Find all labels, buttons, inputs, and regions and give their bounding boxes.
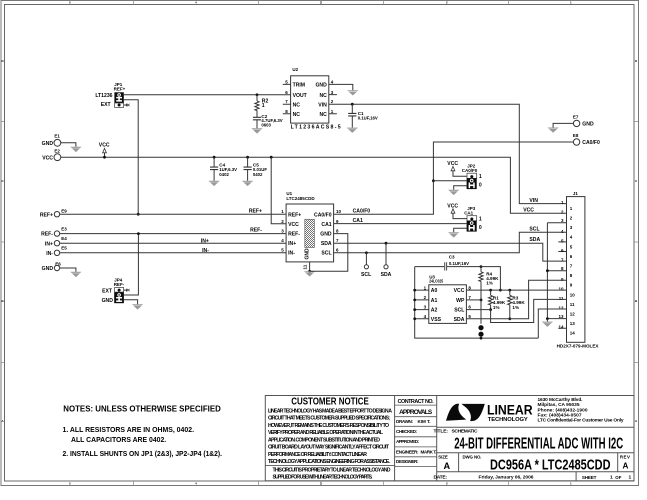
svg-text:HOWEVER, IT REMAINS THE CUSTOM: HOWEVER, IT REMAINS THE CUSTOMER'S RESPO… — [268, 423, 389, 429]
wire SDA net U1 pin7 to J1 pin7 — [334, 243, 567, 261]
junction JP2 branch — [432, 179, 435, 182]
svg-text:C3: C3 — [449, 255, 455, 260]
svg-text:CIRUIT BOARD LAYOUT MAY SIGNIF: CIRUIT BOARD LAYOUT MAY SIGNIFICANTLY AF… — [268, 445, 390, 451]
svg-text:7: 7 — [561, 258, 564, 263]
svg-text:E5: E5 — [61, 246, 67, 251]
ground at E1 — [70, 147, 81, 152]
svg-text:E3: E3 — [61, 227, 67, 232]
svg-text:1: 1 — [281, 209, 284, 214]
junction C3/R4 — [480, 265, 483, 268]
svg-text:14: 14 — [570, 331, 576, 336]
svg-text:REF-: REF- — [114, 282, 125, 287]
jumper JP3 — [464, 206, 482, 232]
jumper JP4 — [102, 278, 130, 304]
svg-text:GND: GND — [315, 83, 327, 89]
resistor R2 — [255, 95, 269, 118]
wire JP4 gnd pin — [124, 300, 138, 305]
wire CA0/F0 net U1 pin10 to E8 — [334, 142, 574, 214]
svg-text:1%: 1% — [486, 281, 493, 286]
wire U1 pin8 GND to pad ground — [310, 234, 348, 272]
svg-text:11: 11 — [303, 264, 309, 269]
junction JP4/REF- — [137, 232, 140, 235]
svg-text:DRAWN:: DRAWN: — [396, 419, 413, 424]
svg-text:CONTRACT NO.: CONTRACT NO. — [398, 399, 435, 405]
svg-text:PERFORMANCE OR RELIABILITY. C: PERFORMANCE OR RELIABILITY. CONTACT LINE… — [268, 452, 367, 458]
svg-text:REF+: REF+ — [40, 212, 53, 218]
svg-text:GND: GND — [42, 266, 54, 272]
svg-text:VCC: VCC — [288, 222, 299, 228]
capacitor C5 — [244, 156, 268, 181]
J1 pin numbers — [558, 200, 575, 336]
svg-text:0.1UF,16V: 0.1UF,16V — [449, 261, 469, 266]
svg-text:1: 1 — [629, 475, 632, 481]
wire VCC branch to U1 pin2 — [271, 157, 286, 224]
svg-text:6: 6 — [285, 90, 288, 95]
wire WP stub — [466, 299, 481, 301]
svg-text:2: 2 — [281, 219, 284, 224]
svg-text:NC: NC — [293, 102, 301, 108]
svg-text:LTC Confidential-For Customer: LTC Confidential-For Customer Use Only — [538, 418, 624, 424]
VCC symbol at rail — [99, 142, 110, 158]
svg-text:E2: E2 — [54, 148, 60, 153]
svg-text:TRIM: TRIM — [293, 83, 305, 89]
svg-text:5: 5 — [281, 248, 284, 253]
ground under C2 — [251, 128, 262, 133]
svg-text:REF-: REF- — [288, 232, 300, 238]
svg-text:NC: NC — [319, 93, 327, 99]
ground under C1 — [347, 128, 358, 133]
svg-text:REF-: REF- — [250, 228, 262, 234]
svg-text:GND: GND — [304, 248, 310, 260]
svg-text:EXT: EXT — [102, 289, 113, 295]
svg-text:2: 2 — [561, 210, 564, 215]
svg-text:REF+: REF+ — [288, 212, 301, 218]
op-amp U2 LT1236ACS8-5 reference — [283, 67, 341, 130]
svg-text:CA0/F0: CA0/F0 — [462, 168, 478, 173]
TITLE BLOCK — [265, 396, 634, 481]
svg-text:LT1236: LT1236 — [95, 93, 112, 99]
ground under U1 — [304, 271, 315, 276]
zone tick marks sides — [1, 122, 639, 363]
svg-text:8: 8 — [285, 109, 288, 114]
svg-text:6: 6 — [561, 248, 564, 253]
svg-text:REV: REV — [620, 454, 630, 459]
svg-text:SCL: SCL — [529, 227, 539, 233]
svg-text:VCC: VCC — [447, 161, 458, 167]
terminal E8 CA0/F0 — [573, 133, 600, 146]
wire U3 address/VSS ground bus — [415, 267, 539, 339]
wire LT1236 VOUT net — [124, 94, 291, 96]
svg-text:6: 6 — [468, 305, 471, 310]
svg-text:1: 1 — [561, 200, 564, 205]
svg-text:REF+: REF+ — [114, 86, 126, 91]
svg-text:13: 13 — [558, 314, 564, 319]
ground at E7 — [548, 128, 559, 133]
svg-text:4: 4 — [424, 314, 427, 319]
wire VCC_EE U3 pin8 to J1 pin10 — [466, 289, 566, 291]
wire C3 to VCC_EE — [481, 267, 500, 291]
terminal E5 IN- — [46, 246, 67, 257]
junction R2 top — [256, 93, 259, 96]
svg-text:IN+: IN+ — [288, 241, 296, 247]
svg-text:ALL CAPACITORS ARE 0402.: ALL CAPACITORS ARE 0402. — [71, 435, 166, 444]
wire JP1 pin2 to REF+ line — [124, 100, 138, 214]
svg-text:REF+: REF+ — [249, 208, 262, 214]
svg-text:GND: GND — [582, 122, 594, 128]
svg-text:IN-: IN- — [46, 251, 53, 257]
VCC symbol at JP3 — [447, 204, 467, 219]
svg-text:1%: 1% — [512, 305, 519, 310]
svg-text:SCL: SCL — [361, 272, 371, 278]
svg-text:5: 5 — [285, 79, 288, 84]
svg-text:2: 2 — [424, 295, 427, 300]
svg-text:Phone: (408)432-1900: Phone: (408)432-1900 — [538, 407, 588, 413]
svg-text:4: 4 — [281, 238, 284, 243]
svg-text:LTC2485CDD: LTC2485CDD — [286, 196, 315, 201]
svg-text:CA1: CA1 — [321, 222, 331, 228]
svg-text:0.1UF,16V: 0.1UF,16V — [358, 115, 378, 120]
svg-text:CA0/F0: CA0/F0 — [582, 140, 600, 146]
wire J1 pin12 to ground bus — [538, 309, 566, 338]
svg-text:LINEAR: LINEAR — [487, 402, 533, 417]
svg-text:1: 1 — [479, 174, 482, 180]
svg-text:1: 1 — [424, 285, 427, 290]
svg-text:APPROVALS: APPROVALS — [399, 409, 433, 416]
svg-text:10: 10 — [558, 287, 564, 292]
svg-text:A: A — [444, 461, 451, 471]
terminal E9 REF+ — [40, 208, 67, 218]
svg-text:10: 10 — [570, 292, 576, 297]
svg-text:IN+: IN+ — [201, 238, 209, 244]
junction C1 — [351, 103, 354, 106]
svg-text:E7: E7 — [573, 115, 579, 120]
svg-text:EXT: EXT — [101, 102, 112, 108]
svg-text:CUSTOMER NOTICE: CUSTOMER NOTICE — [291, 397, 369, 408]
VCC symbol at JP2 — [447, 161, 467, 176]
svg-text:5: 5 — [561, 238, 564, 243]
svg-text:REF-: REF- — [41, 232, 53, 238]
svg-text:GND: GND — [320, 232, 332, 238]
svg-text:VSS: VSS — [431, 317, 442, 323]
wire SCL_EE to J1 pin11 — [491, 299, 567, 322]
svg-text:A2: A2 — [431, 308, 438, 314]
svg-text:J1: J1 — [573, 191, 579, 196]
capacitor C3 — [415, 255, 481, 271]
resistor R1 — [489, 289, 506, 310]
ground at JP4 — [132, 304, 143, 309]
svg-text:E9: E9 — [61, 208, 67, 213]
terminal E3 REF- — [41, 227, 67, 238]
svg-text:C: C — [635, 179, 638, 183]
svg-text:9: 9 — [336, 219, 339, 224]
svg-text:LINEAR TECHNOLOGY HAS MADE A B: LINEAR TECHNOLOGY HAS MADE A BEST EFFORT… — [268, 408, 392, 414]
svg-text:IN-: IN- — [288, 251, 295, 257]
svg-text:0402: 0402 — [219, 172, 229, 177]
svg-text:7: 7 — [336, 238, 339, 243]
svg-text:11: 11 — [570, 302, 575, 307]
junction SCL testpoint — [365, 251, 368, 254]
svg-text:1: 1 — [262, 103, 265, 109]
svg-text:A1: A1 — [431, 298, 438, 304]
svg-text:GND: GND — [102, 298, 114, 304]
svg-text:3: 3 — [424, 305, 427, 310]
wire VCC main rail — [61, 157, 567, 213]
svg-text:A: A — [623, 461, 629, 470]
wire REF- net — [60, 233, 286, 235]
svg-text:1: 1 — [479, 217, 482, 223]
svg-text:12: 12 — [558, 306, 564, 311]
svg-text:APPROVED:: APPROVED: — [396, 439, 419, 444]
svg-text:E8: E8 — [573, 133, 579, 138]
svg-text:DC956A * LTC2485CDD: DC956A * LTC2485CDD — [490, 457, 611, 473]
svg-text:VCC: VCC — [454, 288, 465, 294]
wire SCL net U1 pin6 to J1 pin4 — [334, 232, 567, 253]
svg-text:SUPPLIED FOR USE WITH LINEAR T: SUPPLIED FOR USE WITH LINEAR TECHNOLOGY … — [273, 475, 374, 481]
svg-text:Friday, January 06, 2006: Friday, January 06, 2006 — [479, 474, 534, 480]
svg-text:VCC: VCC — [523, 208, 534, 214]
zone tick marks bottom — [134, 481, 509, 486]
svg-text:0603: 0603 — [261, 122, 271, 127]
wire JP2 gnd — [454, 186, 467, 190]
svg-text:KIM T.: KIM T. — [418, 419, 431, 424]
terminal E7 GND — [573, 115, 594, 128]
svg-text:APPLICATION. COMPONENT SUBSTI: APPLICATION. COMPONENT SUBSTITUTION AND … — [268, 437, 380, 443]
wire SCL_EE U3 pin6 — [466, 309, 490, 311]
svg-text:GND: GND — [42, 141, 54, 147]
svg-text:1. ALL RESISTORS ARE IN OHMS,: 1. ALL RESISTORS ARE IN OHMS, 0402. — [63, 425, 195, 434]
junction SDA testpoint — [385, 242, 388, 245]
svg-text:HD2X7-079-MOLEX: HD2X7-079-MOLEX — [557, 344, 600, 349]
svg-text:SHEET: SHEET — [582, 475, 597, 480]
capacitor C1 — [348, 104, 378, 127]
jumper JP1 — [95, 82, 129, 108]
wire VIN net U2 pin2 to J1 pin1 — [329, 104, 567, 203]
svg-text:SCHEMATIC: SCHEMATIC — [452, 428, 478, 434]
svg-text:8: 8 — [336, 228, 339, 233]
terminal SCL — [361, 253, 371, 278]
terminal SDA — [381, 243, 392, 278]
svg-text:8: 8 — [468, 285, 471, 290]
svg-text:10: 10 — [336, 209, 342, 214]
svg-text:CA0/F0: CA0/F0 — [353, 208, 371, 214]
svg-text:D: D — [635, 59, 638, 63]
eeprom U3 24LC025 — [424, 275, 472, 324]
junction R1/SCL_EE — [489, 308, 492, 311]
junction R4/WP — [480, 299, 483, 302]
connector J1 HD2X7-079-MOLEX — [557, 191, 600, 349]
svg-text:6: 6 — [336, 248, 339, 253]
ground at E6 — [70, 272, 81, 277]
svg-text:NOTES: UNLESS OTHERWISE SPECI: NOTES: UNLESS OTHERWISE SPECIFIED — [63, 403, 221, 413]
ground at J1 pin13 — [542, 322, 553, 327]
Linear Technology logo — [446, 402, 533, 423]
junction R3/SDA_EE — [508, 317, 511, 320]
svg-text:LT1236ACS8-5: LT1236ACS8-5 — [291, 125, 341, 131]
wire IN+ net — [60, 242, 286, 244]
wire REF+ net — [60, 213, 286, 215]
svg-text:1%: 1% — [493, 305, 500, 310]
svg-text:1: 1 — [610, 475, 613, 481]
svg-text:CA0/F0: CA0/F0 — [314, 212, 332, 218]
svg-text:VCC: VCC — [447, 204, 458, 210]
svg-text:13: 13 — [570, 321, 576, 326]
NOTES text block — [63, 403, 223, 458]
svg-text:IN+: IN+ — [45, 241, 53, 247]
svg-text:3: 3 — [561, 218, 564, 223]
svg-text:TECHNOLOGY APPLICATIONS ENGINE: TECHNOLOGY APPLICATIONS ENGINEERING FOR … — [268, 459, 391, 465]
wire E1 to ground — [61, 143, 76, 147]
svg-text:SCL: SCL — [321, 251, 331, 257]
svg-text:CIRCUIT THAT MEETS CUSTOMER-SU: CIRCUIT THAT MEETS CUSTOMER-SUPPLIED SPE… — [268, 416, 390, 422]
svg-text:WP: WP — [456, 298, 465, 304]
svg-text:MARK T.: MARK T. — [421, 449, 437, 454]
capacitor C4 — [210, 156, 237, 181]
svg-text:DESIGNER:: DESIGNER: — [396, 459, 419, 464]
svg-text:SDA: SDA — [381, 272, 392, 278]
svg-text:24LC025: 24LC025 — [429, 279, 443, 284]
svg-text:24-BIT DIFFERENTIAL ADC WITH I: 24-BIT DIFFERENTIAL ADC WITH I2C — [454, 435, 623, 452]
junction JP1/REF+ — [137, 213, 140, 216]
svg-text:NC: NC — [319, 112, 327, 118]
svg-text:ENGINEER:: ENGINEER: — [396, 449, 419, 454]
svg-text:SDA: SDA — [454, 317, 465, 323]
svg-text:SDA: SDA — [529, 237, 540, 243]
svg-text:Fax: (408)434-0507: Fax: (408)434-0507 — [538, 413, 582, 419]
terminal E4 IN+ — [45, 236, 67, 247]
wire CA0/F0 branch to JP2 — [433, 180, 466, 182]
wire E7 to ground — [553, 123, 573, 127]
wire U2 pin4 to ground — [329, 84, 353, 90]
option pads below U3 — [478, 325, 483, 339]
svg-text:3: 3 — [281, 228, 284, 233]
svg-text:VCC: VCC — [99, 142, 110, 148]
svg-text:4: 4 — [331, 79, 334, 84]
svg-text:TECHNOLOGY: TECHNOLOGY — [488, 417, 528, 423]
svg-text:12: 12 — [570, 312, 576, 317]
terminal E1 GND — [42, 134, 61, 147]
svg-text:7: 7 — [285, 99, 288, 104]
svg-text:0: 0 — [479, 183, 482, 189]
svg-text:SIZE: SIZE — [438, 454, 448, 459]
svg-text:B: B — [635, 299, 638, 303]
J1 ground bus pins 3,8,13 — [547, 223, 566, 319]
ground at U2 pin4 — [347, 90, 358, 95]
svg-text:7: 7 — [468, 295, 471, 300]
svg-text:SCL: SCL — [454, 308, 464, 314]
svg-text:DATE:: DATE: — [434, 474, 448, 480]
wire SDA_EE U3 pin5 to J1 pin9 — [466, 280, 566, 319]
ADC U1 LTC2485CDD — [281, 191, 341, 262]
svg-text:THIS CIRCUIT IS PROPRIETARY TO: THIS CIRCUIT IS PROPRIETARY TO LINEAR TE… — [273, 468, 391, 474]
jumper JP2 — [462, 163, 482, 189]
svg-text:E6: E6 — [55, 261, 61, 266]
ground at JP2 — [448, 190, 459, 195]
svg-text:2. INSTALL SHUNTS ON JP1 (2&3): 2. INSTALL SHUNTS ON JP1 (2&3), JP2-JP4 … — [63, 449, 223, 458]
svg-text:VCC: VCC — [42, 155, 53, 161]
junction C3 branch at VCC_EE — [499, 289, 502, 292]
wire IN- net — [60, 252, 286, 254]
wire JP3 gnd — [454, 228, 467, 232]
svg-text:OF: OF — [615, 475, 621, 480]
svg-text:TITLE:: TITLE: — [434, 428, 449, 434]
svg-text:E4: E4 — [61, 236, 67, 241]
terminal E6 GND — [42, 261, 62, 272]
U1 exposed pad — [303, 219, 315, 269]
svg-text:3: 3 — [331, 90, 334, 95]
svg-text:2: 2 — [331, 99, 334, 104]
svg-text:DWG NO.: DWG NO. — [463, 454, 482, 459]
svg-text:A: A — [635, 419, 638, 423]
svg-text:NC: NC — [293, 112, 301, 118]
svg-text:5: 5 — [468, 314, 471, 319]
svg-text:A0: A0 — [431, 288, 438, 294]
svg-text:4: 4 — [561, 229, 564, 234]
svg-text:1: 1 — [331, 109, 334, 114]
svg-text:VIN: VIN — [318, 102, 327, 108]
ground under C5 — [242, 181, 253, 186]
svg-text:CHECKED:: CHECKED: — [396, 429, 417, 434]
resistor R3 — [508, 289, 526, 319]
junction U1 ground node — [308, 270, 311, 273]
svg-text:VOUT: VOUT — [293, 93, 308, 99]
svg-text:E1: E1 — [54, 134, 60, 139]
wire E6 to ground — [60, 268, 76, 272]
svg-text:14: 14 — [558, 325, 564, 330]
svg-text:0402: 0402 — [253, 172, 263, 177]
svg-text:CA1: CA1 — [353, 218, 363, 224]
wire U1 pad pin11 to ground — [309, 262, 311, 271]
wire CA1 net U1 pin9 to JP3 — [334, 223, 467, 225]
svg-text:9: 9 — [561, 277, 564, 282]
wire JP4 middle pin to REF- line — [124, 234, 138, 295]
ground under C4 — [209, 181, 220, 186]
svg-text:1630 McCarthy Blvd.: 1630 McCarthy Blvd. — [538, 397, 583, 403]
junction VCC to U1 — [270, 156, 273, 159]
svg-text:VIN: VIN — [529, 198, 538, 204]
capacitor C2 — [253, 114, 283, 128]
svg-text:U2: U2 — [292, 67, 298, 72]
svg-text:11: 11 — [559, 296, 564, 301]
svg-text:IN-: IN- — [202, 248, 209, 254]
svg-text:VERIFY PROPER AND RELIABLE OPE: VERIFY PROPER AND RELIABLE OPERATION IN … — [268, 430, 384, 436]
svg-text:Milpitas, CA 95035: Milpitas, CA 95035 — [538, 402, 580, 408]
J1 pin stubs 5,6,14 — [558, 242, 566, 328]
ground at JP3 — [448, 232, 459, 237]
svg-text:CA1: CA1 — [464, 211, 473, 216]
zone tick marks top — [134, 1, 509, 5]
svg-text:SDA: SDA — [321, 241, 332, 247]
terminal E2 VCC — [42, 148, 61, 161]
resistor R4 — [479, 267, 499, 324]
svg-text:0: 0 — [479, 225, 482, 231]
